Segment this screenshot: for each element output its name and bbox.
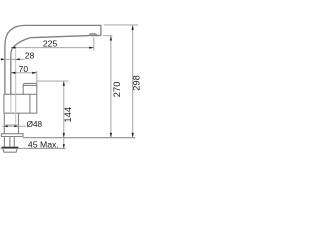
svg-text:Ø48: Ø48 [27, 120, 43, 129]
svg-text:28: 28 [25, 51, 35, 61]
svg-text:270: 270 [111, 82, 122, 98]
svg-text:45 Max.: 45 Max. [28, 139, 59, 149]
svg-text:298: 298 [130, 75, 141, 91]
svg-text:144: 144 [62, 107, 73, 123]
svg-text:225: 225 [43, 38, 58, 48]
svg-text:70: 70 [19, 64, 29, 74]
